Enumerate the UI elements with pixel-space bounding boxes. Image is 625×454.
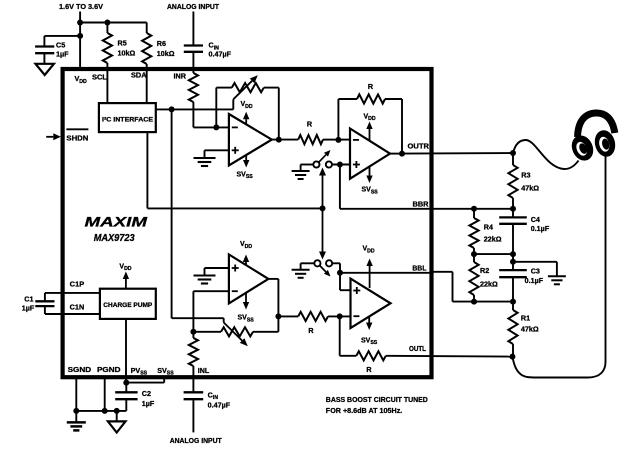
arrow U1 VDD <box>245 119 247 124</box>
U1 plus sign <box>232 149 239 151</box>
op-amp U4 <box>351 279 391 328</box>
arrow U3 VDD <box>245 262 247 265</box>
wire ground bus <box>76 410 126 412</box>
switch SW2 lever arrow <box>320 266 326 272</box>
ground bottom switch <box>292 269 310 271</box>
resistor INL internal <box>192 332 194 338</box>
node C3 top junction <box>510 259 516 265</box>
U2 plus sign <box>353 164 360 166</box>
wire R4 C4 bus <box>474 253 513 255</box>
wire OUTR to headphone <box>513 140 579 169</box>
wire I2C to switch control <box>146 132 148 208</box>
capacitor C3 <box>499 269 527 271</box>
svg-text:I²C INTERFACE: I²C INTERFACE <box>102 116 154 123</box>
wire CIN top lead <box>192 12 194 46</box>
wire U2 feedback right <box>385 98 402 100</box>
wire CIN to INR <box>192 52 194 73</box>
svg-text:SDA: SDA <box>131 71 147 80</box>
ground C3 <box>548 275 566 277</box>
arrow pot wiper left <box>223 318 225 322</box>
arrow U4 SVSS <box>368 317 370 323</box>
svg-text:C1P: C1P <box>70 280 85 289</box>
svg-text:C5: C5 <box>56 41 65 50</box>
ground top switch <box>292 170 310 172</box>
wire C2 top lead <box>125 383 127 393</box>
switch SW2 contacts <box>314 260 320 266</box>
svg-text:R: R <box>307 119 313 128</box>
node BBR C4 junction <box>510 206 516 212</box>
potentiometer volume left <box>221 327 253 336</box>
resistor INR internal <box>189 73 198 102</box>
wire C1N <box>45 313 100 315</box>
svg-text:R4: R4 <box>484 223 493 232</box>
svg-text:47kΩ: 47kΩ <box>521 184 539 193</box>
U4 minus sign <box>353 315 359 317</box>
headphones right earcup <box>592 128 618 159</box>
U3 plus sign <box>232 267 239 269</box>
node U1 inverting junction <box>213 124 219 130</box>
resistor R4 <box>473 209 475 218</box>
wire INR to inverting node <box>192 102 194 127</box>
wire U1 output <box>272 139 298 141</box>
capacitor C5 <box>35 45 54 47</box>
wire volume to bottom pot <box>172 317 224 319</box>
capacitor C4 <box>499 216 527 218</box>
switch SW1 contacts <box>313 161 319 167</box>
svg-text:R: R <box>366 365 372 374</box>
wire BBL junction to U4 plus <box>339 273 341 290</box>
node supply junction <box>77 20 83 26</box>
node U3 inverting junction <box>190 329 196 335</box>
svg-text:BASS BOOST CIRCUIT TUNED: BASS BOOST CIRCUIT TUNED <box>326 395 429 404</box>
svg-text:22kΩ: 22kΩ <box>480 279 498 288</box>
node C4 bottom junction <box>510 251 516 257</box>
wire U3 output <box>268 278 278 280</box>
svg-text:SGND: SGND <box>68 365 92 374</box>
svg-text:0.1µF: 0.1µF <box>531 224 550 233</box>
node SGND junction <box>73 408 79 414</box>
op-amp U3 <box>229 255 269 304</box>
resistor R top middle <box>298 135 323 144</box>
arrow U3 SVSS <box>245 293 247 302</box>
wire U3 minus left <box>193 290 229 292</box>
resistor R U4 feedback <box>356 351 386 360</box>
svg-text:1µF: 1µF <box>22 304 35 313</box>
wire OUTL <box>386 355 513 358</box>
svg-text:R1: R1 <box>521 314 530 323</box>
arrow U1 SVSS <box>245 155 247 160</box>
node R5 top junction <box>104 20 110 26</box>
node U2 inverting junction <box>335 137 341 143</box>
arrow control to bottom switch <box>322 208 324 251</box>
svg-text:MAX9723: MAX9723 <box>94 233 136 244</box>
node C2 junction <box>123 380 129 386</box>
wire C5 branch <box>44 35 80 37</box>
node volume junction <box>169 106 175 112</box>
svg-text:0.47µF: 0.47µF <box>209 50 232 59</box>
wire SGND down <box>75 377 77 411</box>
wire C5 bottom lead <box>43 53 45 64</box>
capacitor C1 <box>35 300 54 302</box>
wire C5 top lead <box>43 36 45 47</box>
node switch control junction <box>320 205 326 211</box>
svg-text:C4: C4 <box>531 215 540 224</box>
wire charge pump to PVSS <box>125 319 127 383</box>
svg-text:22kΩ: 22kΩ <box>484 235 502 244</box>
svg-text:C3: C3 <box>531 266 540 275</box>
IC MAX9723 body outline <box>63 69 432 377</box>
capacitor CIN bottom <box>184 391 204 393</box>
arrow control to top switch <box>322 176 324 209</box>
svg-text:BBL: BBL <box>412 264 427 273</box>
wire R to U2 <box>323 139 338 141</box>
block CHARGE PUMP <box>100 289 156 319</box>
node PGND junction <box>102 408 108 414</box>
node U2 plus junction <box>337 162 343 168</box>
svg-text:PGND: PGND <box>97 365 121 374</box>
resistor R2 <box>473 254 475 262</box>
svg-text:MAXIM: MAXIM <box>85 215 149 230</box>
svg-text:FOR +8.6dB AT 105Hz.: FOR +8.6dB AT 105Hz. <box>326 406 403 415</box>
wire R to U4 <box>328 315 351 317</box>
svg-text:CHARGE PUMP: CHARGE PUMP <box>103 302 153 309</box>
node R2 bottom junction <box>471 299 477 305</box>
wire SVSS tie <box>163 377 165 382</box>
node U1 output junction <box>276 137 282 143</box>
resistor R5 <box>106 23 108 34</box>
svg-text:10kΩ: 10kΩ <box>157 49 175 58</box>
node R1 top junction <box>510 299 516 305</box>
node BBL junction <box>337 270 343 276</box>
ground U1 plus <box>194 157 216 159</box>
svg-text:0.47µF: 0.47µF <box>208 400 231 409</box>
node U4 inverting junction <box>337 313 343 319</box>
wire mid node <box>512 254 514 262</box>
capacitor C2 <box>115 391 137 393</box>
svg-text:C1: C1 <box>24 295 33 304</box>
wire VDD supply vertical <box>79 12 81 70</box>
svg-text:C2: C2 <box>142 389 151 398</box>
pin label SHDN with overline <box>66 128 88 130</box>
wire volume vertical <box>171 109 173 318</box>
svg-text:47kΩ: 47kΩ <box>521 325 539 334</box>
node U2 output junction <box>399 151 405 157</box>
arrow U4 VDD <box>369 266 371 288</box>
wire C4 top lead <box>512 209 514 218</box>
wire U3 feedback left <box>193 331 221 333</box>
wire I2C to volume pot <box>156 108 234 110</box>
resistor R U2 feedback <box>357 94 385 103</box>
wire SW1 to U2 plus <box>332 164 350 166</box>
ground chassis below C5 <box>36 64 54 75</box>
node OUTR junction <box>510 150 516 156</box>
U3 minus sign <box>232 290 238 292</box>
wire C3 bottom lead <box>512 277 514 301</box>
block I2C INTERFACE <box>99 103 156 132</box>
pin SHDN arrow <box>46 136 53 138</box>
svg-text:C1N: C1N <box>70 302 85 311</box>
svg-text:SCL: SCL <box>92 72 108 81</box>
svg-text:10kΩ: 10kΩ <box>118 49 136 58</box>
wire BBL <box>340 272 432 274</box>
U2 minus sign <box>353 139 359 141</box>
ground U3 plus <box>194 274 216 276</box>
svg-text:R5: R5 <box>118 39 127 48</box>
wire U1 feedback left <box>215 88 217 128</box>
node U3 output junction <box>275 313 281 319</box>
node BBR R4 junction <box>471 206 477 212</box>
switch SW1 lever arrow <box>319 155 326 163</box>
resistor R3 <box>512 153 514 165</box>
node chassis junction <box>114 408 120 414</box>
wire U2 feedback up <box>337 99 339 140</box>
capacitor CIN top <box>184 44 203 46</box>
wire U1 plus to ground <box>205 149 229 151</box>
wire OUTR <box>390 153 402 155</box>
svg-text:1µF: 1µF <box>142 399 155 408</box>
op-amp U1 <box>229 114 272 165</box>
arrow U2 SVSS <box>369 166 371 176</box>
wire C1P <box>45 292 100 294</box>
svg-text:R: R <box>308 326 314 335</box>
ground earth SGND <box>75 411 77 423</box>
svg-text:ANALOG INPUT: ANALOG INPUT <box>170 436 222 445</box>
svg-text:BBR: BBR <box>413 199 430 208</box>
wire PGND down <box>104 377 106 411</box>
node C5 branch junction <box>77 33 83 39</box>
wire C2 bottom lead <box>125 399 127 411</box>
headphones left earcup <box>568 132 597 164</box>
wire BBR external <box>432 208 514 210</box>
resistor R6 <box>146 23 148 34</box>
wire CIN bottom lead <box>192 399 194 432</box>
arrow pot wiper right <box>232 99 234 109</box>
wire mid to ground <box>513 261 557 263</box>
wire C3 top lead <box>512 262 514 270</box>
svg-text:R6: R6 <box>157 39 166 48</box>
svg-text:OUTL: OUTL <box>409 344 427 353</box>
svg-text:R: R <box>368 82 374 91</box>
wire top switch ground lead <box>301 164 314 166</box>
wire U3 feedback right <box>253 331 278 333</box>
wire U3 plus to ground <box>205 267 229 269</box>
svg-text:0.1µF: 0.1µF <box>525 276 544 285</box>
wire C4 bottom lead <box>512 224 514 254</box>
svg-text:R2: R2 <box>480 266 489 275</box>
svg-text:OUTR: OUTR <box>408 142 430 151</box>
svg-text:1.6V TO 3.6V: 1.6V TO 3.6V <box>59 2 103 11</box>
arrow U2 VDD <box>369 129 371 141</box>
svg-text:INR: INR <box>174 71 187 80</box>
node R4 bottom junction <box>471 251 477 257</box>
ground chassis PGND <box>116 411 118 422</box>
op-amp U2 <box>350 129 390 179</box>
potentiometer volume right <box>232 83 264 92</box>
svg-text:R3: R3 <box>521 171 530 180</box>
arrow charge pump VDD <box>125 279 127 289</box>
wire SW2 to U4 plus <box>332 262 340 264</box>
svg-text:SHDN: SHDN <box>66 133 88 142</box>
wire U4 feedback down <box>339 316 341 355</box>
U1 minus sign <box>232 126 238 128</box>
svg-text:INL: INL <box>198 366 210 375</box>
node OUTL junction <box>509 354 515 360</box>
wire U3 out to R <box>278 315 298 317</box>
headphones headband <box>578 113 615 137</box>
resistor R1 <box>512 302 514 310</box>
wire BBL external <box>432 271 453 273</box>
wire OUTL to headphone <box>512 156 605 378</box>
svg-text:1µF: 1µF <box>56 50 69 59</box>
U4 plus sign <box>353 290 360 292</box>
wire U1 feedback right <box>264 87 279 89</box>
wire supply rail <box>80 22 147 24</box>
wire BBR from plus <box>339 165 341 209</box>
wire bottom switch ground lead <box>301 262 315 264</box>
resistor R bottom middle <box>298 312 328 321</box>
svg-text:ANALOG INPUT: ANALOG INPUT <box>167 2 219 11</box>
